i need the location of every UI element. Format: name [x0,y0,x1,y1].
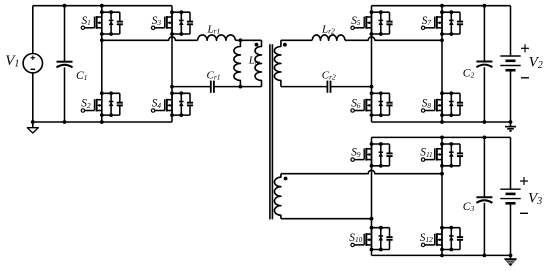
wire: Cr1 branch (leg B midpoint tap to transformer primary bottom) [172,86,211,88]
node: bridge3 leg B bottom rail [440,254,444,258]
wire bridge1 leg B (S3/S4) [171,6,173,122]
transistor S8 (MOSFET with body diode and snubber capacitor) [421,91,463,117]
wire bridge3 leg A (S9/S10) [371,137,373,255]
svg-text:S1: S1 [82,15,91,27]
wire: Lr2 to bridge2 leg B midpoint (hops over leg A) [345,37,442,40]
svg-text:C3: C3 [463,201,475,213]
wire bridge1 leg A (S1/S2) [101,6,103,122]
node: leg A midpoint [100,38,104,42]
node: leg A bottom rail [100,120,104,124]
svg-text:S11: S11 [420,147,432,159]
svg-text:C2: C2 [463,68,475,80]
ground (port 3, filled triangle) [505,255,517,265]
svg-text:Lr2: Lr2 [321,23,335,35]
capacitor Cr1 [211,81,214,93]
wire bottom rail bridge 1 [33,121,172,123]
ground (port 2, earth bars) [505,122,516,131]
node: Lm top junction [239,38,243,42]
capacitor C1 [57,6,73,122]
node: C2 top [483,4,487,8]
wire: Lr1 to transformer primary top [235,39,261,41]
transistor S9 (MOSFET with body diode and snubber capacitor) [351,142,393,168]
wire: tertiary top to bridge3 leg B midpoint (hops over leg A) [281,170,442,173]
svg-text:Cr1: Cr1 [207,69,221,81]
transistor S4 (MOSFET with body diode and snubber capacitor) [151,91,193,117]
battery V3 [500,137,528,255]
node: V3 bottom rail junction [509,254,513,258]
wire bridge3 leg B (S11/S12) [441,137,443,255]
svg-text:S12: S12 [420,232,433,244]
voltage source V1 [23,6,42,122]
svg-text:V3: V3 [528,191,542,208]
wire top rail bridge 2 [372,5,511,7]
svg-text:V2: V2 [529,55,543,72]
node: bridge3 leg A tap [370,217,374,221]
svg-text:S9: S9 [351,147,361,159]
svg-text:S5: S5 [351,15,361,27]
svg-text:Cr2: Cr2 [322,69,336,81]
svg-text:Lr1: Lr1 [207,23,221,35]
node: leg B tap for Cr1 [170,85,174,89]
polarity dot secondary [283,43,287,47]
battery V2 [500,6,529,122]
node: C1 bottom [63,120,67,124]
wire bridge2 leg A (S5/S6) [371,6,373,122]
svg-text:S7: S7 [422,15,432,27]
svg-text:S4: S4 [152,98,162,110]
svg-text:S6: S6 [351,98,361,110]
transformer primary winding [255,40,262,86]
capacitor Cr2 [327,81,330,93]
ground (port 1, open triangle) [27,122,38,133]
polarity dot primary [255,43,259,47]
svg-text:S8: S8 [422,98,432,110]
transistor S11 (MOSFET with body diode and snubber capacitor) [421,142,463,168]
wire bottom rail bridge 3 [372,254,511,256]
node: bridge2 leg B midpoint [440,38,444,42]
inductor Lm (magnetizing inductance) [234,40,241,86]
wire top rail bridge 3 [372,136,511,138]
transistor S7 (MOSFET with body diode and snubber capacitor) [421,10,463,36]
node: leg B bottom rail [440,120,444,124]
node: C2 bottom [483,120,487,124]
node: Lm bottom junction [239,85,243,89]
transformer secondary winding (port 2) [274,40,281,86]
node: bridge3 leg B midpoint [440,172,444,176]
node: leg B top rail [440,4,444,8]
transistor S1 (MOSFET with body diode and snubber capacitor) [81,10,123,36]
svg-text:S3: S3 [152,15,162,27]
transistor S2 (MOSFET with body diode and snubber capacitor) [81,91,123,117]
svg-text:S2: S2 [81,98,91,110]
node: V2 bottom rail junction [509,120,513,124]
wire bridge2 leg B (S7/S8) [441,6,443,122]
wire: tertiary bottom to bridge3 leg A tap [281,218,372,220]
transformer core [270,44,273,219]
svg-text:S10: S10 [349,232,362,244]
svg-text:V1: V1 [5,53,19,70]
wire: Cr2 to bridge2 leg A tap [331,86,372,88]
capacitor C2 [476,6,492,122]
node: bridge2 leg A tap [370,85,374,89]
node: V1 / bottom rail junction [31,120,35,124]
inductor Lr1 [198,35,236,40]
node: C3 bottom [483,254,487,258]
node: C1 top [63,4,67,8]
transistor S3 (MOSFET with body diode and snubber capacitor) [151,10,193,36]
wire bottom rail bridge 2 [372,121,511,123]
wire top rail bridge 1 [33,5,172,7]
wire: secondary bottom to Cr2 [281,86,328,88]
wire: secondary top to Lr2 [281,39,312,41]
transistor S6 (MOSFET with body diode and snubber capacitor) [351,91,393,117]
wire: bridge1 leg A midpoint to Lr1 (hops over leg B) [102,37,198,40]
node: C3 top [483,136,487,140]
transformer tertiary winding (port 3) [274,174,281,219]
transistor S12 (MOSFET with body diode and snubber capacitor) [421,226,463,252]
node: leg A top rail [100,4,104,8]
node: bridge3 leg B top rail [440,136,444,140]
transistor S10 (MOSFET with body diode and snubber capacitor) [351,226,393,252]
transistor S5 (MOSFET with body diode and snubber capacitor) [351,10,393,36]
polarity dot tertiary [284,177,288,181]
inductor Lr2 [312,35,345,40]
svg-text:C1: C1 [76,70,87,82]
capacitor C3 [476,137,492,255]
